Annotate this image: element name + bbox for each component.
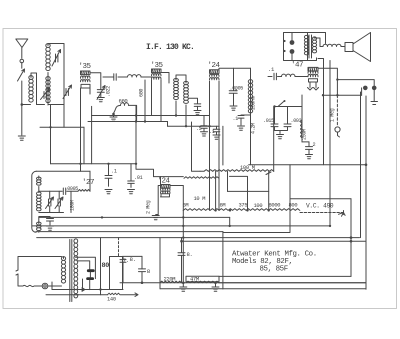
wire drop x84	[83, 127, 85, 164]
wire rf1 bottom	[48, 104, 64, 106]
wire T3 left down	[209, 81, 211, 210]
wire T2 right down	[160, 80, 162, 122]
coupling coil L4	[128, 75, 142, 77]
wire bus A left corner	[91, 106, 93, 115]
junction heater	[99, 288, 101, 290]
osc trimmer 2	[58, 199, 60, 206]
wire x136 drop	[135, 106, 137, 164]
svg-text:180M: 180M	[70, 200, 76, 211]
wire osc box right	[89, 171, 91, 191]
ground b+ mid	[180, 283, 187, 292]
power transformer core	[70, 240, 72, 302]
wire W1 down	[175, 101, 177, 116]
wire rf1 top	[48, 44, 64, 107]
ground .1 det	[105, 190, 112, 194]
wire coupling c	[141, 76, 152, 78]
antenna insulator ball	[20, 59, 24, 63]
speaker magnet	[345, 43, 353, 52]
resistor 250M	[301, 120, 303, 138]
junction post wire	[336, 78, 338, 80]
wire avc right elbow	[273, 107, 275, 172]
cathode capacitor C11	[201, 116, 208, 137]
resistor 1 Meg	[336, 95, 338, 126]
ground under C4	[97, 92, 104, 101]
rectifier plate bar 2	[86, 277, 94, 280]
IF transformer T1 lower box	[81, 84, 90, 88]
vertical mid rail	[182, 210, 184, 282]
detector winding W3 line	[250, 73, 252, 165]
filter choke box	[110, 257, 123, 290]
wire det2 grid link	[154, 176, 184, 178]
svg-text:8000: 8000	[269, 202, 281, 208]
capacitor .015	[271, 123, 280, 131]
wire x91 drop	[91, 116, 93, 164]
wire coupling b	[118, 76, 127, 78]
osc trimmer 2 arrow	[55, 197, 63, 209]
wire T3 plate	[219, 68, 251, 71]
chassis ground	[371, 90, 378, 104]
vertical rail x330	[329, 61, 331, 226]
junction Wa 2	[135, 163, 137, 165]
resistor 10M small	[184, 177, 219, 179]
AC plug break	[16, 270, 18, 275]
speaker pin 2	[283, 50, 285, 52]
junction chain 1	[214, 209, 216, 211]
svg-text:8.: 8.	[187, 251, 193, 258]
coupling capacitor C9	[268, 73, 282, 80]
switch S2 dot	[284, 100, 286, 102]
junction b1	[141, 281, 144, 284]
rf trimmer C2 arrow	[52, 50, 61, 67]
wire text box left	[218, 276, 220, 282]
wire low rail	[160, 288, 366, 290]
wire avc upper	[289, 165, 291, 199]
wire avc y191	[228, 190, 269, 192]
junction busB 3	[185, 125, 187, 127]
pot arrow 1meg	[335, 127, 340, 132]
rf coil L3	[46, 77, 50, 103]
ground det2	[152, 216, 159, 220]
junction vc rail b	[350, 240, 353, 243]
wire rail A	[360, 92, 362, 238]
AC cord squiggle	[23, 285, 42, 286]
svg-text:'47: '47	[291, 62, 303, 70]
wire osc lb ends	[39, 191, 64, 212]
svg-text:100: 100	[254, 203, 263, 209]
ground osc cath	[47, 226, 54, 230]
resistor 140 hum	[108, 293, 139, 297]
wire vc right edge	[350, 199, 352, 277]
svg-text:.003: .003	[291, 118, 302, 124]
switch network wires	[275, 95, 303, 142]
rectifier cathode wire	[89, 280, 91, 290]
wire rail B	[365, 96, 367, 289]
vertical x222 textbox	[222, 233, 224, 290]
coupling capacitor C5	[114, 74, 116, 81]
binding post 2	[372, 86, 377, 91]
sec tap 2	[89, 272, 91, 277]
capacitor .003	[280, 117, 291, 131]
wire rf1 left down	[50, 105, 52, 164]
wire speaker return	[292, 54, 317, 61]
wire T1 right down	[89, 88, 91, 94]
wire W1 top	[176, 75, 186, 83]
wire T3 top to W3	[250, 68, 252, 72]
svg-text:'27: '27	[82, 179, 94, 187]
wire T5 left	[158, 186, 160, 215]
wire rail R3	[36, 231, 223, 233]
ground switch net	[277, 131, 284, 139]
svg-text:85, 85F: 85, 85F	[260, 265, 288, 273]
wire rf1 left mid	[47, 73, 49, 77]
svg-text:.1: .1	[209, 129, 215, 135]
wire rf1 right down	[63, 105, 65, 127]
wire T4 plate up	[318, 68, 337, 95]
wire chain left entry	[171, 186, 183, 211]
wire osc mid vert	[70, 191, 72, 212]
svg-text:100 M: 100 M	[240, 165, 255, 171]
wire bleeder	[219, 282, 366, 284]
bypass capacitor C6	[188, 98, 200, 106]
wire cap 8a link	[141, 256, 143, 269]
wire W2 down	[185, 105, 187, 126]
volume control arrow	[339, 211, 346, 217]
svg-text:.015: .015	[263, 118, 274, 124]
svg-text:.5: .5	[196, 126, 202, 132]
osc cathode cap	[39, 217, 54, 226]
junction R1 b	[182, 216, 184, 218]
antenna	[16, 39, 28, 58]
osc pad capacitor	[38, 221, 40, 223]
coupling coil L5	[282, 74, 296, 76]
ground C8	[238, 126, 245, 130]
IF transformer T3 coil	[210, 74, 220, 80]
IF transformer T5 lower box	[161, 194, 170, 197]
output transformer T4 lower box	[309, 79, 318, 82]
ground antenna	[18, 136, 25, 140]
output transformer T4 box	[308, 67, 318, 71]
svg-text:2 Meg: 2 Meg	[146, 200, 152, 214]
junction busB 1	[135, 120, 137, 122]
wire coupling a	[103, 76, 114, 78]
wire vc box	[290, 198, 351, 200]
pot tail 1meg	[338, 132, 340, 137]
junction chain 3	[246, 209, 248, 211]
resistor 220M	[160, 281, 181, 283]
filter cap 8a	[120, 256, 142, 282]
capacitor C8	[238, 116, 244, 126]
trimmer C4	[97, 90, 104, 93]
ground C10	[306, 155, 313, 159]
binding post 1	[363, 86, 368, 91]
wire rail R2	[32, 225, 330, 227]
wire rail R1	[39, 216, 230, 218]
antenna coil secondary	[36, 76, 38, 105]
output winding A	[304, 35, 308, 54]
voice coil	[323, 44, 341, 46]
wire avc left	[192, 122, 201, 171]
output transformer core	[309, 35, 312, 58]
svg-text:8.: 8.	[130, 256, 136, 263]
junction busA 3	[175, 114, 177, 116]
ground C6	[194, 106, 201, 114]
wire avc v247	[230, 176, 248, 210]
wire avc v268	[268, 171, 270, 210]
junction c14	[180, 240, 183, 243]
wire coil bottom	[37, 104, 45, 106]
wire 680 drop	[144, 80, 146, 122]
svg-text:'35: '35	[79, 63, 92, 71]
junction bus C	[49, 126, 51, 128]
wire C7 stub	[235, 89, 237, 91]
wire post1 link	[361, 88, 363, 95]
junction antenna coil	[21, 103, 24, 106]
wire sec tap3	[76, 290, 80, 295]
junction vc rail	[350, 236, 353, 239]
osc coil La	[37, 177, 42, 185]
IF transformer T3 box	[210, 70, 220, 74]
svg-text:.0005: .0005	[65, 186, 79, 192]
IF transformer T5 box	[161, 185, 171, 189]
svg-text:10 M: 10 M	[194, 196, 206, 202]
wire text box bottom	[219, 275, 351, 277]
wire ps drops	[52, 279, 83, 290]
svg-text:6M: 6M	[220, 202, 226, 208]
junction b2	[182, 281, 185, 284]
wire W3 to C8	[241, 114, 251, 117]
osc trimmer arrow	[46, 197, 54, 209]
svg-text:375: 375	[239, 202, 248, 208]
antenna switch arrow	[18, 69, 25, 81]
trimmer capacitor ant	[44, 92, 46, 99]
trimmer arrow ant	[41, 88, 50, 100]
osc grid resistor	[78, 190, 90, 192]
wire T4 cath 2	[314, 82, 319, 90]
wire T3 right down	[218, 81, 220, 210]
wire b+ bus	[120, 282, 366, 284]
wire T2 left down	[151, 80, 153, 115]
resistor 100M arrow	[266, 172, 271, 175]
wire ps bottom bus	[52, 289, 123, 291]
rectifier plate bar 1	[87, 269, 95, 272]
resistor chain	[183, 209, 299, 211]
junction busA 2	[135, 114, 137, 116]
osc grid capacitor	[39, 188, 78, 195]
tuning capacitor C3	[66, 89, 68, 96]
ground bleeder	[212, 283, 219, 292]
wire T5 bottom	[160, 196, 162, 198]
antenna switch	[21, 62, 23, 68]
heater line 2	[46, 294, 108, 296]
osc coil Lb	[37, 192, 42, 211]
speaker terminal box	[284, 33, 308, 61]
wire T5 top stub	[160, 177, 162, 185]
wire rect up rail	[100, 238, 102, 295]
tuning capacitor C3 arrow	[63, 85, 72, 99]
junction ps	[81, 288, 84, 291]
svg-text:250hm: 250hm	[251, 96, 257, 110]
inductor 660	[121, 103, 129, 106]
wire mid cross rail	[182, 240, 367, 242]
ground .01 det	[128, 190, 135, 194]
wire plug to primary	[48, 285, 62, 287]
junction Wa 1	[107, 163, 109, 165]
IF transformer T2 box	[152, 69, 162, 73]
filter capacitor C14	[178, 241, 185, 282]
wire c14 up	[181, 238, 183, 242]
filter cap 8b	[139, 269, 146, 283]
switch S2	[278, 101, 284, 106]
osc coil Lc	[37, 222, 42, 231]
svg-text:.1: .1	[233, 116, 239, 122]
IF transformer T1 box	[81, 71, 91, 75]
svg-text:680: 680	[139, 89, 145, 97]
wire bus A	[92, 115, 210, 117]
IF winding W1	[174, 79, 179, 100]
wire T5 right	[170, 185, 171, 187]
wire 660 right	[129, 105, 137, 121]
wire rail R1 corner	[229, 217, 231, 226]
svg-text:140: 140	[107, 297, 116, 303]
IF transformer T1 coil	[81, 76, 91, 82]
cathode capacitor C12	[213, 126, 220, 139]
wire post top	[337, 80, 374, 86]
wire bus B2	[168, 125, 220, 127]
wire top right link	[323, 94, 362, 96]
svg-text:2: 2	[313, 142, 316, 148]
junction 1meg	[336, 94, 338, 96]
svg-text:.01: .01	[134, 175, 143, 181]
wire 220M drop	[159, 238, 161, 289]
wire bus C	[40, 126, 84, 128]
junction R2 c	[329, 225, 331, 227]
output winding B	[312, 37, 316, 53]
wire osc la	[38, 176, 40, 193]
junction 660 gnd	[112, 113, 115, 116]
rf trimmer C2	[56, 54, 58, 62]
detector winding W3	[248, 80, 252, 113]
ground osc pad	[38, 231, 40, 233]
speaker terminal dot 2	[290, 49, 295, 54]
osc trimmer	[49, 199, 51, 206]
wire rail R4	[37, 237, 360, 239]
wire voice coil ends	[314, 38, 345, 47]
svg-text:4.2M: 4.2M	[251, 123, 257, 134]
svg-text:8: 8	[147, 268, 151, 275]
junction R1 a	[101, 216, 103, 218]
sec tap 1b	[77, 261, 90, 269]
capacitor C7 .0005	[229, 68, 237, 105]
wire lc top	[38, 217, 40, 223]
svg-text:I.F. 130 KC.: I.F. 130 KC.	[146, 43, 194, 52]
rf coil L2	[46, 44, 50, 71]
wire bus B	[88, 121, 168, 123]
IF winding W2	[184, 81, 189, 103]
wire T1 left down	[80, 88, 82, 171]
wire mid right	[302, 138, 309, 142]
wire avc v230	[227, 171, 229, 191]
speaker terminal dot 1	[290, 40, 295, 45]
antenna coil primary	[29, 76, 33, 102]
svg-text:.1: .1	[111, 169, 117, 175]
wire y164 rail	[249, 164, 366, 166]
power transformer secondary	[74, 239, 78, 298]
resistor 100M	[200, 170, 274, 172]
svg-text:80: 80	[102, 262, 110, 270]
sec tap 1	[76, 257, 96, 278]
junction busB 2	[144, 120, 146, 122]
volume control track	[300, 212, 344, 214]
AC plug loop	[18, 257, 62, 287]
IF transformer T2 coil	[152, 74, 162, 80]
heater arrow 1	[72, 288, 85, 292]
ground C7	[230, 106, 237, 110]
IF transformer T5 coil	[161, 188, 171, 193]
wire choke up rail	[118, 238, 120, 257]
wire T4 left down	[308, 82, 313, 90]
wire det2 entry	[136, 164, 154, 177]
oscillator shield box left	[32, 171, 37, 232]
wire 660 left hook	[114, 105, 121, 113]
oscillator shield box top	[36, 170, 90, 172]
junction busB 4	[208, 125, 210, 127]
wire speaker top	[292, 33, 326, 44]
wire coil tops	[31, 73, 37, 78]
box 47M	[186, 276, 219, 281]
junction R2 a	[182, 225, 184, 227]
junction chain 4	[268, 209, 270, 211]
ground 660	[110, 114, 117, 121]
wire Wa	[51, 163, 137, 165]
wire x222 upper	[222, 126, 224, 165]
junction bleeder	[214, 281, 217, 284]
junction R2 b	[229, 225, 231, 227]
wire junction to coil	[22, 104, 31, 106]
wire T1 plate right	[90, 73, 101, 90]
wire L5 to T4	[295, 76, 308, 78]
resistor 47M	[186, 281, 219, 283]
wire 2meg	[156, 214, 159, 216]
junction chain 2	[229, 209, 231, 211]
capacitor .01 det	[128, 164, 135, 188]
wire avc v216	[215, 171, 217, 210]
junction y164	[365, 163, 368, 166]
wire rail R3 corner	[223, 197, 290, 233]
junction R4 a	[182, 236, 184, 238]
junction top right a	[322, 94, 324, 96]
svg-text:6M: 6M	[183, 202, 189, 208]
wire antenna down	[21, 81, 23, 135]
trimmer C4 arrow	[97, 86, 105, 100]
capacitor C10	[306, 142, 313, 154]
speaker pin 1	[283, 40, 285, 42]
junction Wa x80	[79, 163, 81, 165]
wire T2 plate right	[161, 73, 169, 84]
wire bus B step	[167, 122, 169, 127]
svg-text:.1: .1	[268, 66, 275, 73]
wire T4 right down	[318, 59, 324, 165]
AC plug body	[42, 283, 48, 289]
speaker cone	[353, 33, 371, 62]
power transformer primary	[61, 257, 65, 284]
capacitor .1 det	[105, 164, 112, 187]
junction L5	[273, 105, 275, 107]
output transformer T4 coil	[308, 71, 318, 77]
svg-text:.022: .022	[106, 86, 112, 97]
